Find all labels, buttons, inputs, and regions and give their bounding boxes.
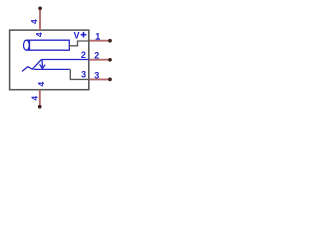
tip spring polyline — [22, 60, 41, 72]
svg-text:4: 4 — [29, 96, 39, 101]
pin 3 internal stub — [70, 69, 89, 79]
svg-text:3: 3 — [94, 70, 99, 80]
pin 1 end dot — [108, 39, 112, 43]
svg-text:3: 3 — [81, 70, 86, 80]
pin 2 end dot — [108, 58, 112, 62]
pin 4 top end dot — [38, 6, 42, 10]
svg-text:V: V — [74, 31, 80, 41]
pin 3 end dot — [108, 78, 112, 82]
pin 1 wire — [90, 40, 109, 42]
svg-text:2: 2 — [81, 50, 86, 60]
switch arrowhead — [40, 64, 46, 68]
svg-text:2: 2 — [94, 50, 99, 60]
svg-text:4: 4 — [34, 32, 44, 37]
barrel sleeve cap ellipse — [24, 40, 30, 50]
pin 4 bottom end dot — [38, 105, 42, 109]
pin 4 bottom wire — [39, 90, 41, 106]
svg-text:1: 1 — [95, 32, 100, 42]
switch throw line — [34, 68, 70, 70]
switch arrow shaft — [41, 60, 43, 68]
tip contact line — [41, 59, 88, 61]
connector body outline — [10, 30, 89, 90]
pin 1 internal stub — [69, 41, 89, 46]
pin 3 wire — [90, 78, 109, 80]
pin name plus sign — [81, 32, 87, 38]
pin 4 top wire — [39, 10, 41, 30]
svg-text:4: 4 — [36, 81, 46, 86]
barrel sleeve body — [27, 40, 70, 50]
svg-text:4: 4 — [29, 19, 39, 24]
barrel sleeve cap flat — [29, 40, 31, 50]
pin 2 wire — [90, 59, 109, 61]
pin 1 number base serif — [96, 39, 100, 40]
